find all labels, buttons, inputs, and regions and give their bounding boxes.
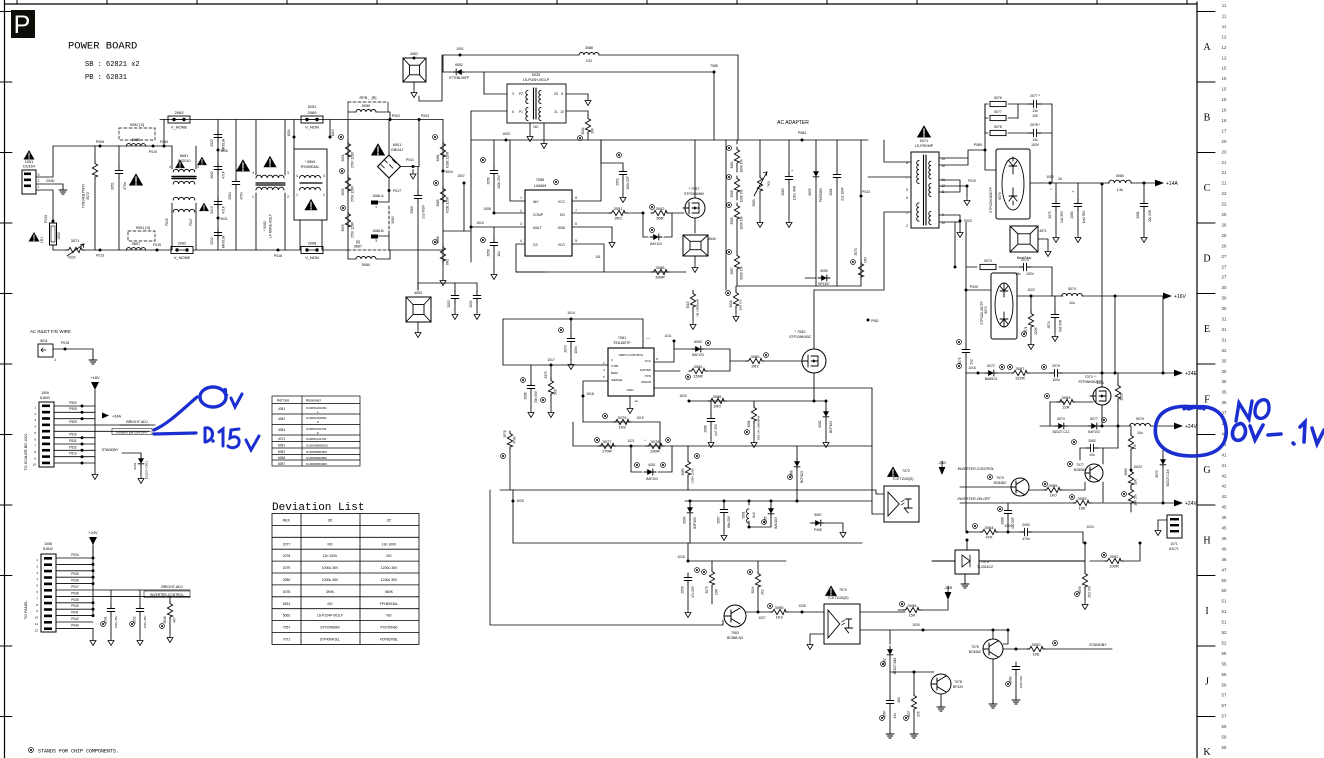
svg-text:2R2: 2R2	[751, 363, 759, 368]
svg-text:59: 59	[1222, 724, 1227, 729]
capacitor 2090	[1020, 528, 1032, 536]
svg-text:3067: 3067	[730, 267, 734, 274]
svg-text:12: 12	[1222, 55, 1227, 60]
wire 7078 collector	[947, 660, 949, 675]
warning 5071	[917, 125, 931, 137]
svg-text:BAF103: BAF103	[692, 353, 704, 357]
svg-text:1021: 1021	[627, 439, 634, 443]
svg-text:6072: 6072	[987, 364, 995, 368]
svg-text:2062: 2062	[178, 242, 186, 246]
supply -24B mid	[939, 467, 946, 475]
svg-text:3: 3	[512, 92, 514, 96]
resistor 3076	[509, 422, 511, 430]
svg-text:2L: 2L	[554, 110, 558, 114]
node 1014	[570, 318, 573, 321]
wire sec riser 966	[965, 373, 967, 532]
svg-text:3: 3	[34, 418, 36, 422]
svg-text:3n3 35R: 3n3 35R	[1059, 319, 1063, 332]
annotation line left2	[154, 433, 196, 434]
svg-text:1: 1	[54, 358, 56, 362]
resistor 3079	[613, 419, 631, 424]
svg-text:10: 10	[560, 110, 564, 114]
svg-text:47K: 47K	[985, 534, 992, 539]
svg-text:E: E	[1204, 324, 1210, 335]
svg-text:RYN0903AL: RYN0903AL	[301, 165, 320, 169]
wire 5071 sec mid	[939, 180, 960, 186]
diode 6077	[1088, 423, 1100, 429]
svg-text:7077: 7077	[1076, 463, 1084, 467]
svg-text:1013: 1013	[331, 129, 335, 136]
svg-text:11: 11	[1222, 24, 1227, 29]
svg-text:STPS20H100CFP: STPS20H100CFP	[989, 187, 993, 213]
svg-text:8R2: 8R2	[446, 259, 450, 265]
jumper 2069	[301, 116, 323, 123]
capacitor 2080	[1077, 183, 1079, 199]
svg-text:3051: 3051	[341, 154, 345, 161]
svg-text:NO: NO	[327, 542, 332, 546]
svg-text:3089: 3089	[1062, 395, 1072, 400]
annotation Ov	[200, 387, 226, 407]
svg-text:INVERTER-CONTROL: INVERTER-CONTROL	[150, 593, 184, 597]
svg-text:P037: P037	[71, 585, 79, 589]
heatsink 4053	[406, 297, 431, 322]
svg-text:CTRL: CTRL	[611, 364, 619, 368]
svg-text:150R: 150R	[693, 373, 703, 378]
svg-text:5R6 1%: 5R6 1%	[739, 299, 743, 310]
resistor 3086	[708, 398, 726, 403]
fuse 1651	[50, 223, 57, 245]
resistor 3064	[727, 146, 732, 151]
svg-text:45: 45	[1222, 515, 1227, 520]
wires panel pins	[56, 557, 93, 559]
svg-text:3088: 3088	[656, 265, 666, 270]
svg-text:7: 7	[36, 596, 38, 600]
svg-text:3016: 3016	[729, 300, 733, 307]
svg-text:3051: 3051	[614, 206, 624, 211]
svg-text:2089: 2089	[1009, 676, 1013, 683]
transformer 5025 grounds	[529, 123, 531, 132]
svg-text:3052: 3052	[341, 188, 345, 195]
svg-text:3088: 3088	[585, 46, 593, 50]
svg-text:VCO: VCO	[558, 243, 566, 247]
svg-text:6078: 6078	[998, 192, 1002, 200]
svg-text:6K8 1% 1/800mW: 6K8 1% 1/800mW	[757, 416, 761, 440]
svg-text:30: 30	[1222, 285, 1227, 290]
svg-text:100u 35V: 100u 35V	[143, 616, 147, 629]
svg-text:100R: 100R	[1109, 563, 1119, 568]
capacitor 2077	[1029, 100, 1041, 108]
svg-text:10u: 10u	[497, 251, 501, 257]
connector 1051 AC inlet	[22, 170, 36, 194]
diode 6063	[674, 348, 692, 350]
transformer 5071	[911, 152, 939, 228]
capacitor 2070	[559, 328, 564, 333]
svg-text:P510: P510	[69, 452, 77, 456]
svg-text:2: 2	[603, 361, 605, 365]
wire sec pair	[954, 222, 956, 267]
snubber 5078	[984, 118, 986, 133]
svg-text:470n: 470n	[240, 192, 244, 200]
node 1003	[505, 139, 508, 142]
svg-text:4: 4	[296, 174, 298, 178]
svg-text:11: 11	[1222, 13, 1227, 18]
diode 6082	[889, 630, 891, 644]
svg-text:TCET1103(G): TCET1103(G)	[827, 596, 848, 600]
heatsink 4071	[1010, 226, 1038, 252]
svg-text:1K0: 1K0	[1049, 492, 1057, 497]
svg-text:1652: 1652	[57, 232, 61, 240]
resistor 3051	[339, 135, 344, 140]
svg-text:1008: 1008	[44, 542, 52, 546]
svg-text:3: 3	[611, 358, 613, 362]
svg-text:P043: P043	[71, 623, 79, 627]
svg-text:57: 57	[1222, 693, 1227, 698]
node P020	[965, 289, 968, 292]
svg-text:P520: P520	[69, 433, 77, 437]
svg-text:26: 26	[1222, 222, 1227, 227]
svg-text:7063: 7063	[731, 631, 739, 635]
svg-text:AC INLET F/G WIRE: AC INLET F/G WIRE	[30, 329, 71, 334]
label +24A	[102, 413, 109, 419]
wire col 443	[442, 120, 444, 265]
svg-text:1016: 1016	[968, 366, 976, 370]
svg-text:NO: NO	[386, 614, 391, 618]
svg-text:100K 1%: 100K 1%	[740, 216, 744, 229]
svg-text:10u: 10u	[1137, 431, 1143, 435]
svg-text:P1: P1	[519, 110, 523, 114]
svg-text:6055: 6055	[808, 188, 812, 195]
wire 7061 isense	[583, 381, 608, 422]
svg-text:K: K	[317, 431, 320, 435]
svg-text:INVERTER-ON-OFF: INVERTER-ON-OFF	[116, 430, 147, 434]
resistor 3066	[433, 240, 438, 245]
svg-text:2066: 2066	[704, 425, 708, 432]
svg-text:2079: 2079	[283, 566, 291, 570]
vertical F049 riser	[163, 120, 165, 147]
svg-text:2: 2	[34, 412, 36, 416]
warning 5652	[199, 203, 209, 212]
svg-text:3093: 3093	[1078, 586, 1082, 593]
ic 7061 TEA1507P	[608, 348, 654, 396]
svg-text:STP20NM60: STP20NM60	[684, 192, 704, 196]
svg-text:110K 2%: 110K 2%	[740, 189, 744, 202]
svg-text:3: 3	[375, 239, 377, 243]
svg-text:V_NONE: V_NONE	[174, 255, 191, 260]
svg-text:P041: P041	[71, 611, 79, 615]
svg-text:1: 1	[520, 196, 522, 200]
capacitor 2061	[836, 140, 838, 170]
border right	[1196, 2, 1198, 758]
svg-text:7: 7	[34, 444, 36, 448]
warning 1R1	[29, 232, 40, 242]
resistor 3066b	[727, 203, 732, 208]
wire top bus main	[160, 119, 443, 121]
svg-text:BAF103: BAF103	[646, 477, 658, 481]
svg-text:S13088380000: S13088380000	[306, 462, 327, 466]
svg-text:270K 120R: 270K 120R	[351, 221, 355, 238]
svg-text:MULT: MULT	[533, 226, 542, 230]
wire 5071 sec top	[939, 150, 985, 158]
svg-text:5657: 5657	[132, 242, 140, 246]
svg-text:P089: P089	[974, 143, 982, 147]
output +24E	[1174, 370, 1183, 377]
svg-text:4062: 4062	[410, 52, 418, 56]
svg-text:3060: 3060	[752, 199, 756, 206]
node P011	[401, 166, 420, 168]
resistor 3048	[169, 597, 171, 602]
svg-text:2A: 2A	[1058, 177, 1063, 181]
svg-text:2K2: 2K2	[761, 589, 765, 595]
resistor 3081b	[753, 401, 755, 406]
svg-text:3068: 3068	[730, 190, 734, 197]
svg-text:11: 11	[1222, 3, 1227, 8]
wire long 543	[513, 542, 862, 544]
svg-text:8: 8	[36, 603, 38, 607]
svg-text:1: 1	[36, 558, 38, 562]
svg-text:3079: 3079	[618, 415, 628, 420]
rectifier 6073	[991, 273, 1017, 339]
svg-text:+16V: +16V	[1174, 294, 1186, 300]
svg-text:BZD27-C12: BZD27-C12	[1053, 430, 1070, 434]
svg-text:2: 2	[323, 193, 325, 197]
warning 1051	[24, 150, 35, 160]
svg-text:1a: 1a	[634, 399, 638, 403]
svg-text:TVR14611P543Y: TVR14611P543Y	[82, 183, 86, 208]
node P010	[152, 145, 155, 148]
svg-text:1008: 1008	[483, 207, 491, 211]
svg-text:P084: P084	[798, 131, 806, 135]
inductor 5061	[748, 501, 750, 505]
svg-text:2S: 2S	[554, 92, 558, 96]
svg-text:12: 12	[1222, 45, 1227, 50]
wire drop 738	[737, 55, 739, 140]
capacitor 2056	[481, 158, 486, 163]
svg-text:322R: 322R	[1015, 375, 1025, 380]
svg-text:32: 32	[1222, 348, 1227, 353]
wire 7076 collector	[992, 630, 994, 639]
wire bus bottom filter	[84, 249, 171, 251]
wire 7074 gnd	[810, 634, 824, 640]
svg-text:P2: P2	[519, 92, 523, 96]
svg-text:GND: GND	[558, 226, 566, 230]
svg-text:3080: 3080	[751, 354, 761, 359]
svg-text:BF420: BF420	[953, 685, 963, 689]
svg-text:2087: 2087	[883, 710, 887, 717]
transistor 7078c	[931, 674, 951, 694]
svg-text:100u: 100u	[1052, 378, 1060, 382]
wire pin3	[471, 226, 525, 228]
diode 6072	[985, 370, 997, 376]
resistor 3087	[1011, 370, 1029, 375]
node P002	[389, 118, 392, 121]
svg-text:+: +	[1072, 189, 1075, 194]
svg-text:3061: 3061	[436, 154, 440, 161]
diode 6061	[631, 446, 642, 472]
svg-text:P011: P011	[406, 158, 414, 162]
wire 7063 emitter	[746, 611, 770, 613]
svg-text:3081: 3081	[747, 420, 751, 427]
svg-text:2R2: 2R2	[614, 215, 622, 220]
svg-text:22: 22	[1222, 202, 1227, 207]
wire +24V rail	[1040, 425, 1057, 427]
svg-text:3042: 3042	[656, 206, 666, 211]
capacitor 2092	[139, 590, 141, 604]
annotation swoosh left	[154, 397, 197, 430]
svg-text:* 7062: * 7062	[795, 330, 806, 334]
svg-text:GND: GND	[627, 388, 635, 392]
transistor 7063	[724, 605, 746, 627]
svg-text:[X]: [X]	[356, 240, 360, 244]
svg-text:GBU4J: GBU4J	[391, 148, 403, 152]
svg-text:50: 50	[1222, 578, 1227, 583]
test arrow 5025	[585, 96, 591, 106]
svg-text:10n: 10n	[1089, 453, 1095, 457]
svg-text:68n 20V: 68n 20V	[727, 515, 731, 528]
svg-text:Deviation List: Deviation List	[272, 502, 364, 514]
wire 5071 pin8	[884, 140, 911, 162]
resistor 3077	[598, 443, 616, 448]
svg-text:1024: 1024	[1086, 525, 1094, 529]
svg-text:REF.: REF.	[283, 519, 291, 523]
svg-text:6u2: 6u2	[752, 512, 756, 518]
node P081	[867, 319, 870, 322]
svg-text:6: 6	[512, 110, 514, 114]
svg-text:471F: 471F	[222, 206, 226, 214]
svg-text:1051: 1051	[25, 160, 33, 164]
svg-text:PMR5209: PMR5209	[819, 188, 823, 202]
svg-text:P002: P002	[392, 114, 400, 118]
svg-text:3208: 3208	[1120, 393, 1124, 400]
resistor 3083b	[687, 446, 689, 460]
wire isense row	[583, 421, 660, 423]
svg-text:9667: 9667	[354, 245, 362, 249]
svg-text:4053: 4053	[278, 428, 285, 432]
svg-text:P017: P017	[393, 189, 401, 193]
svg-text:BZD27-C5V1: BZD27-C5V1	[145, 461, 149, 480]
svg-text:36: 36	[1222, 400, 1227, 405]
svg-text:+24A: +24A	[112, 415, 121, 419]
choke 5653	[256, 175, 284, 178]
svg-text:101: 101	[595, 255, 601, 259]
svg-text:6074: 6074	[1057, 417, 1065, 421]
svg-text:3071: 3071	[71, 239, 79, 243]
svg-text:1066-B: 1066-B	[372, 229, 384, 233]
svg-text:7072: 7072	[902, 469, 910, 473]
svg-text:2078: 2078	[283, 554, 291, 558]
svg-text:BP1307: BP1307	[818, 282, 830, 286]
svg-text:6056: 6056	[278, 456, 285, 460]
svg-text:2077 *: 2077 *	[1030, 94, 1041, 98]
wire box right 726	[725, 140, 727, 290]
svg-text:45: 45	[1222, 526, 1227, 531]
svg-text:220K: 220K	[1034, 326, 1038, 334]
resistor 3059	[1073, 500, 1091, 505]
svg-text:1K8: 1K8	[618, 424, 626, 429]
resistor 3092	[1090, 560, 1106, 562]
wire pin7 GO	[572, 212, 609, 214]
svg-text:4071: 4071	[1039, 229, 1047, 233]
svg-text:P502: P502	[69, 401, 77, 405]
svg-text:32': 32'	[387, 519, 392, 523]
svg-text:STTH8L06FP: STTH8L06FP	[449, 76, 470, 80]
svg-text:6057: 6057	[278, 462, 285, 466]
svg-text:2: 2	[520, 209, 522, 213]
wire 16V branch	[1114, 296, 1116, 373]
svg-text:33n 50V: 33n 50V	[534, 390, 538, 403]
svg-text:2073: 2073	[1021, 258, 1029, 262]
svg-text:1n0 35V: 1n0 35V	[1060, 210, 1064, 223]
potentiometer 3060	[759, 140, 761, 176]
svg-text:52: 52	[1222, 640, 1227, 645]
svg-text:51: 51	[1222, 609, 1227, 614]
wire opto7072 in	[874, 493, 884, 495]
svg-text:2077: 2077	[283, 542, 291, 546]
node 1004	[293, 136, 296, 139]
svg-text:P010: P010	[149, 150, 157, 154]
node P018	[64, 348, 67, 351]
node 3004	[442, 170, 445, 173]
svg-text:471F: 471F	[222, 171, 226, 179]
svg-text:3019: 3019	[686, 301, 690, 308]
svg-text:LF-NONE-001LF: LF-NONE-001LF	[269, 214, 273, 238]
connector 1071	[1167, 515, 1182, 538]
resistor 3002	[587, 111, 589, 116]
svg-text:8: 8	[561, 92, 563, 96]
capacitor 2058b	[481, 238, 486, 243]
resistor 3089	[1050, 401, 1064, 403]
svg-text:5: 5	[603, 375, 605, 379]
svg-text:3078: 3078	[651, 439, 661, 444]
resistor 3097	[913, 672, 915, 694]
svg-text:RPB _ [R]: RPB _ [R]	[360, 96, 377, 100]
svg-text:CS: CS	[533, 243, 538, 247]
wire 6082 row	[890, 671, 934, 673]
svg-text:10R: 10R	[715, 588, 719, 595]
svg-text:1014: 1014	[567, 311, 575, 315]
svg-text:56: 56	[1222, 661, 1227, 666]
resistor 3095	[770, 609, 788, 614]
border left	[4, 0, 6, 758]
svg-text:1015: 1015	[1096, 381, 1104, 385]
svg-text:2059: 2059	[616, 178, 620, 185]
capacitor 2073	[1019, 263, 1031, 271]
warning 5651b	[197, 157, 207, 166]
svg-text:COMP: COMP	[533, 213, 544, 217]
svg-text:11: 11	[35, 622, 38, 626]
svg-text:4u7 25V: 4u7 25V	[714, 423, 718, 436]
svg-text:25: 25	[1222, 212, 1227, 217]
svg-text:HVS: HVS	[645, 374, 651, 378]
svg-text:5061: 5061	[742, 511, 746, 518]
svg-text:6063: 6063	[694, 340, 702, 344]
svg-text:51: 51	[1222, 599, 1227, 604]
transformer 5652	[173, 197, 195, 200]
svg-text:TO PANEL: TO PANEL	[24, 601, 28, 619]
node 3006	[217, 149, 220, 152]
svg-text:INV: INV	[533, 200, 539, 204]
wire 5071 pin7	[868, 176, 911, 178]
svg-text:4: 4	[252, 171, 254, 175]
resistor 3093b	[1130, 426, 1132, 434]
row ticks right	[1197, 11, 1215, 13]
svg-text:1200u 35V: 1200u 35V	[381, 566, 398, 570]
output +16V	[1163, 293, 1172, 300]
svg-text:3059: 3059	[1078, 496, 1088, 501]
svg-text:3006: 3006	[220, 149, 228, 153]
logo P	[11, 10, 35, 38]
svg-text:13n: 13n	[1032, 138, 1038, 142]
svg-text:*: *	[1050, 187, 1052, 192]
